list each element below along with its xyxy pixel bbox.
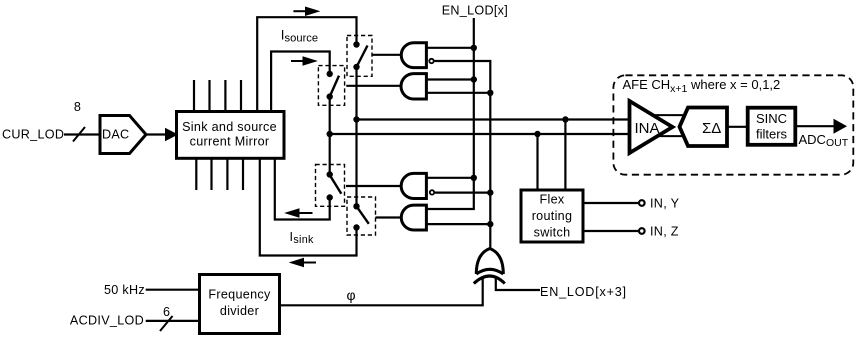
svg-text:8: 8 xyxy=(74,100,81,114)
svg-text:ΣΔ: ΣΔ xyxy=(702,120,721,137)
svg-text:Flex: Flex xyxy=(540,193,565,207)
svg-text:Frequency: Frequency xyxy=(208,288,271,302)
svg-text:SINC: SINC xyxy=(756,111,787,126)
svg-text:filters: filters xyxy=(756,126,788,141)
svg-text:INA: INA xyxy=(635,120,660,137)
svg-text:EN_LOD[x]: EN_LOD[x] xyxy=(442,4,508,18)
svg-text:Sink and source: Sink and source xyxy=(182,120,277,134)
svg-text:switch: switch xyxy=(534,226,571,240)
svg-text:routing: routing xyxy=(532,209,573,223)
svg-text:DAC: DAC xyxy=(102,128,130,142)
svg-text:6: 6 xyxy=(163,305,170,319)
svg-text:divider: divider xyxy=(220,304,259,318)
svg-text:50 kHz: 50 kHz xyxy=(104,283,145,297)
svg-text:IN, Z: IN, Z xyxy=(650,224,679,238)
svg-text:ACDIV_LOD: ACDIV_LOD xyxy=(70,314,144,328)
svg-text:current Mirror: current Mirror xyxy=(190,135,270,149)
svg-text:IN, Y: IN, Y xyxy=(650,196,680,210)
svg-text:EN_LOD[x+3]: EN_LOD[x+3] xyxy=(540,285,627,299)
svg-text:CUR_LOD: CUR_LOD xyxy=(2,128,64,142)
svg-text:φ: φ xyxy=(346,287,355,303)
